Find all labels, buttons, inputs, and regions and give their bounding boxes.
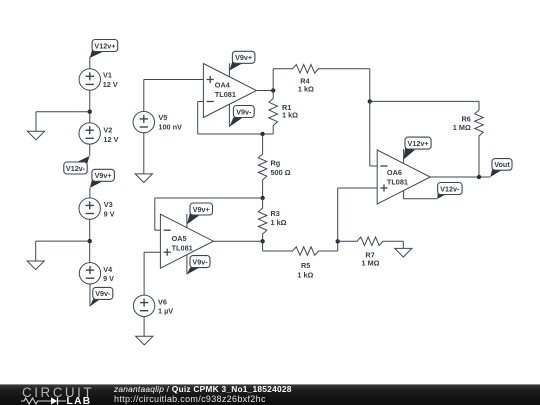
svg-text:9 V: 9 V [104, 209, 115, 218]
svg-text:V6: V6 [158, 297, 167, 306]
svg-text:V9v-: V9v- [236, 107, 252, 116]
svg-text:100 nV: 100 nV [158, 123, 182, 132]
svg-text:1 kΩ: 1 kΩ [297, 271, 313, 280]
svg-text:V3: V3 [104, 200, 113, 209]
svg-text:V2: V2 [103, 126, 112, 135]
svg-text:V12v+: V12v+ [408, 139, 429, 148]
svg-text:V9v+: V9v+ [235, 53, 252, 62]
svg-text:V4: V4 [103, 265, 113, 274]
svg-text:1 MΩ: 1 MΩ [361, 259, 379, 268]
svg-text:TL081: TL081 [215, 90, 236, 99]
svg-text:1 MΩ: 1 MΩ [453, 123, 471, 132]
svg-text:R3: R3 [271, 209, 280, 218]
svg-text:R6: R6 [461, 114, 470, 123]
svg-text:1 µV: 1 µV [158, 306, 173, 315]
svg-text:R5: R5 [301, 261, 310, 270]
svg-text:V9v-: V9v- [192, 257, 208, 266]
svg-text:V5: V5 [158, 113, 167, 122]
svg-text:V9v+: V9v+ [95, 171, 112, 180]
svg-text:1 kΩ: 1 kΩ [271, 218, 287, 227]
svg-text:V9v-: V9v- [95, 289, 111, 298]
svg-text:OA6: OA6 [387, 168, 402, 177]
svg-text:9 V: 9 V [103, 274, 114, 283]
svg-text:1 kΩ: 1 kΩ [298, 85, 314, 94]
svg-text:Vout: Vout [494, 160, 510, 169]
svg-text:OA4: OA4 [215, 81, 231, 90]
svg-text:12 V: 12 V [103, 135, 118, 144]
svg-text:12 V: 12 V [103, 80, 118, 89]
svg-text:OA5: OA5 [172, 234, 187, 243]
svg-text:V9v+: V9v+ [193, 205, 210, 214]
svg-text:V12v+: V12v+ [94, 41, 115, 50]
svg-text:V12v-: V12v- [440, 184, 460, 193]
svg-text:V12v-: V12v- [66, 164, 86, 173]
svg-text:TL081: TL081 [172, 244, 193, 253]
svg-text:500 Ω: 500 Ω [271, 168, 291, 177]
svg-text:1 kΩ: 1 kΩ [282, 111, 298, 120]
svg-text:TL081: TL081 [387, 177, 408, 186]
svg-text:Rg: Rg [271, 158, 281, 167]
svg-text:V1: V1 [103, 71, 112, 80]
